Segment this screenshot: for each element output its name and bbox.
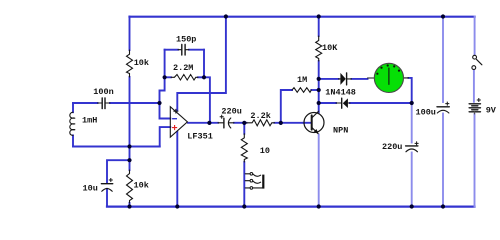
svg-text:1mH: 1mH	[82, 115, 97, 125]
svg-text:10k: 10k	[134, 181, 149, 191]
svg-text:100n: 100n	[93, 87, 113, 97]
svg-text:220u: 220u	[221, 106, 241, 116]
svg-text:LF351: LF351	[187, 132, 213, 142]
svg-text:10u: 10u	[83, 184, 98, 194]
svg-text:1M: 1M	[297, 75, 307, 85]
svg-text:220u: 220u	[382, 142, 402, 152]
svg-text:2.2M: 2.2M	[173, 63, 193, 73]
svg-text:10k: 10k	[134, 58, 149, 68]
svg-text:100u: 100u	[416, 108, 436, 118]
svg-text:1N4148: 1N4148	[325, 87, 356, 97]
svg-text:2.2k: 2.2k	[250, 111, 270, 121]
svg-text:150p: 150p	[176, 35, 196, 45]
svg-text:10K: 10K	[322, 43, 338, 53]
svg-text:9V: 9V	[486, 105, 497, 115]
svg-text:NPN: NPN	[333, 125, 348, 135]
svg-text:10: 10	[260, 146, 270, 156]
